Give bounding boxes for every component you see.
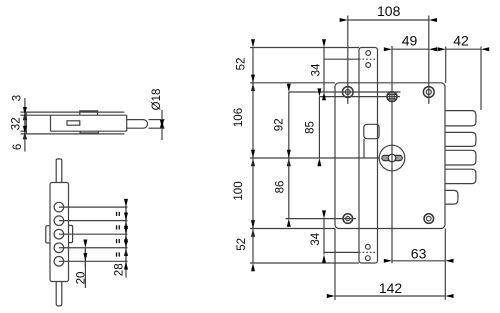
top rod (56, 159, 62, 183)
dim 6 line (outside arrow below) (24, 134, 26, 152)
spindle hole (hatched) (387, 92, 397, 102)
hole 4 leader line (59, 247, 128, 249)
dim 52 bottom (left column) (252, 229, 254, 264)
hole 2 leader line (59, 220, 128, 222)
deadbolt pin 3 (445, 150, 476, 165)
dim 100 (left column) (252, 158, 254, 229)
cylinder key lens (382, 155, 403, 160)
dim 34 bottom (323, 219, 325, 255)
svg-text:86: 86 (275, 181, 287, 194)
svg-text:49: 49 (402, 33, 418, 49)
dim 49 (392, 48, 429, 50)
svg-text:Ø18: Ø18 (151, 89, 163, 111)
bolt hole 1 (54, 202, 64, 212)
equal marks (116, 212, 120, 257)
ext: top dotted level (324, 58, 359, 60)
cylinder (side view) with round cap (127, 120, 148, 129)
dim 108 (348, 19, 429, 21)
ext: spindle center level (319, 96, 400, 98)
ext: top screw center level (289, 91, 401, 93)
cylinder center circle (388, 154, 396, 162)
faceplate screw hole bottom A (365, 244, 370, 249)
equal-spacing chain dim line (125, 206, 127, 278)
ext: spindle/cylinder column vertical (391, 46, 393, 263)
svg-text:52: 52 (236, 58, 248, 71)
equal mark 1 (116, 212, 117, 216)
lock body (335, 83, 445, 229)
svg-text:142: 142 (379, 280, 403, 296)
ext: faceplate top level (250, 47, 359, 49)
equal mark 2 (116, 225, 117, 229)
dim 3/32/6: extension ticks (21, 111, 28, 113)
dim 20 line (84, 248, 86, 288)
dim 42 (446, 48, 481, 50)
follower square (364, 124, 379, 138)
svg-text:108: 108 (377, 3, 401, 19)
svg-text:100: 100 (233, 181, 245, 200)
svg-text:85: 85 (305, 121, 317, 134)
dim 63 (392, 260, 445, 262)
ext: faceplate bottom level (250, 262, 359, 264)
faceplate left end cap (25, 112, 27, 134)
ext: body right edge vertical bottom (444, 229, 446, 301)
svg-text:52: 52 (236, 238, 248, 251)
hole 5 leader line (59, 260, 128, 262)
screw post bottom-left (343, 214, 353, 224)
lock case (side): left edge (50, 115, 52, 131)
hole 3 leader line (59, 233, 128, 235)
faceplate dotted joint bottom (359, 251, 378, 253)
faceplate edge-on: line L2 / case top (26, 114, 126, 116)
equal mark 4 (116, 252, 117, 256)
svg-text:34: 34 (310, 63, 322, 76)
faceplate screw hole bottom B (365, 256, 370, 261)
svg-text:6: 6 (12, 144, 24, 150)
case edge line below follower square (363, 139, 365, 158)
ext: body right edge vertical top (445, 47, 447, 83)
dim 32 line (24, 115, 26, 131)
faceplate edge-on: top line L1 (26, 111, 124, 113)
dim Ø18: extension lines (149, 119, 165, 121)
faceplate screw hole top A (366, 51, 371, 56)
screw post top-left (342, 87, 353, 98)
faceplate screw hole top B (366, 63, 371, 68)
dim 86 (288, 158, 290, 219)
svg-text:32: 32 (11, 117, 23, 130)
hole 1 leader line (59, 206, 128, 208)
bolt hole 4 (54, 243, 64, 253)
ext: bottom screw center level (286, 218, 357, 220)
faceplate dotted joint top (359, 58, 378, 60)
right tab (69, 225, 73, 242)
top tab (latch, side view) (80, 111, 98, 115)
left tab (46, 226, 50, 243)
keyhole slot (side view) (67, 121, 80, 125)
screw post top-right (423, 87, 434, 98)
deadbolt pin 2 (445, 132, 476, 146)
latch bolt small (445, 190, 458, 204)
ext: cylinder center level (250, 157, 379, 159)
screw post bottom-right (424, 214, 434, 224)
svg-text:28: 28 (113, 263, 125, 276)
dim 142 (335, 295, 445, 297)
ext: right screw column vertical (428, 16, 430, 105)
lock case (side): bottom edge (51, 130, 127, 132)
ext: body bottom level (250, 228, 335, 230)
equal mark 3 (116, 239, 117, 243)
svg-text:106: 106 (233, 108, 245, 127)
ext: body top level (250, 82, 335, 84)
dim 34 top (323, 48, 325, 93)
svg-text:63: 63 (411, 245, 427, 261)
chain arrows (125, 207, 127, 213)
svg-text:92: 92 (274, 118, 286, 131)
bottom tab (side view) (80, 131, 98, 133)
faceplate front: plate (50, 183, 69, 282)
deadbolt pin 1 (445, 111, 476, 126)
svg-text:3: 3 (12, 95, 24, 101)
bolt hole 5 (54, 257, 64, 267)
dim 3 line (outside arrow above) (24, 98, 26, 112)
svg-text:34: 34 (310, 232, 322, 245)
faceplate edge-on: bottom line L4 (26, 133, 124, 135)
lock case (side): right edge (126, 115, 128, 131)
bottom rod (56, 282, 62, 306)
bolt hole 2 (54, 216, 64, 226)
faceplate strip (359, 48, 378, 264)
svg-text:20: 20 (76, 272, 88, 285)
svg-text:42: 42 (453, 32, 469, 48)
dim 85 (318, 97, 320, 158)
dim 106 (left column) (252, 83, 254, 158)
dim 52 top (left column) (252, 48, 254, 83)
bolt hole 3 (54, 229, 64, 239)
ext: bolt tip vertical (480, 47, 482, 111)
ext: body left edge vertical bottom (334, 229, 336, 301)
dim 92 (288, 92, 290, 158)
ext: left screw column vertical (347, 16, 349, 105)
ext: bottom dotted level (324, 251, 359, 253)
dim Ø18 line (outside arrows) (161, 110, 163, 120)
deadbolt pin 4 (445, 169, 476, 183)
cylinder circle (379, 145, 405, 171)
